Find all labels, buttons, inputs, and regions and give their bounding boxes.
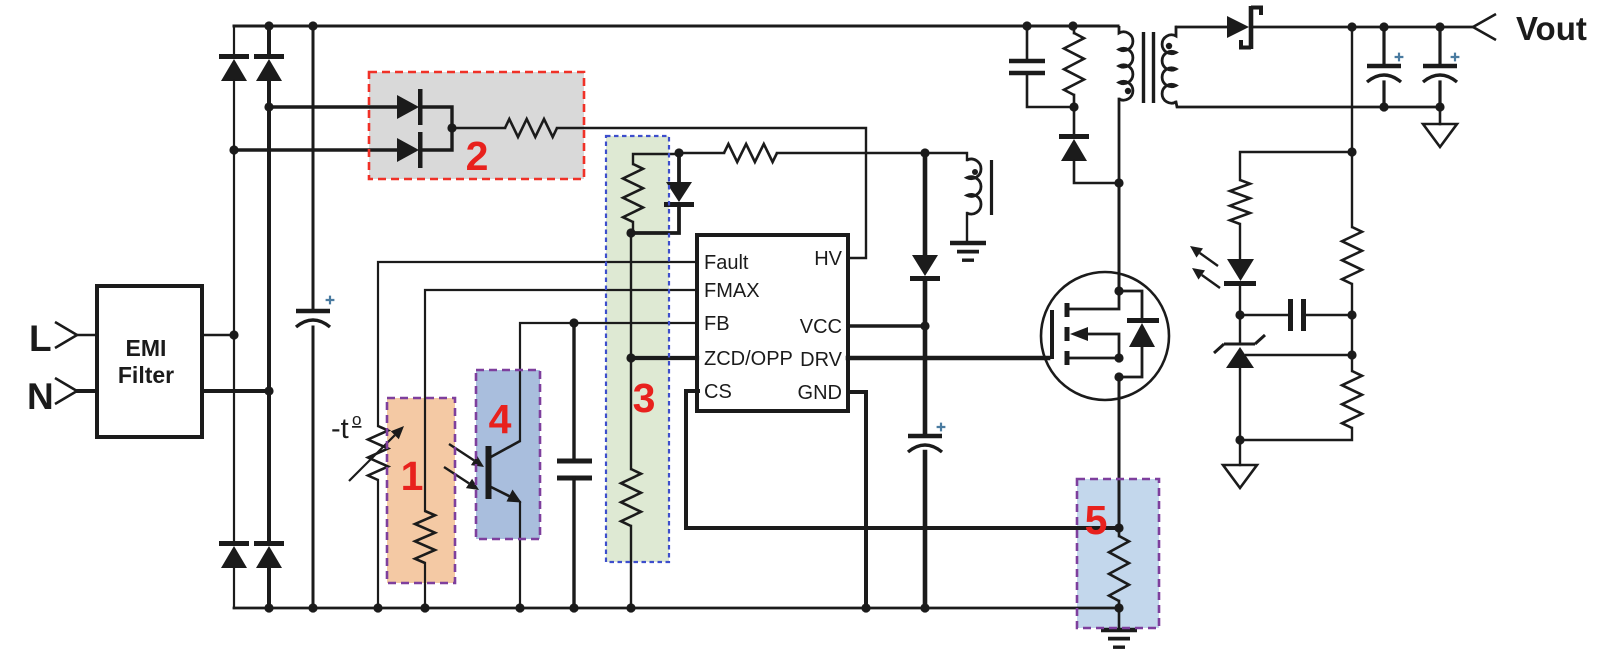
wire sense resistor to ground bbox=[1118, 601, 1121, 630]
diode output schottky bbox=[1227, 6, 1261, 49]
junction CS / sense resistor bbox=[1114, 523, 1123, 532]
junction filter cap / bottom rail bbox=[569, 603, 578, 612]
svg-text:Fault: Fault bbox=[704, 252, 749, 274]
wire right AC column middle bbox=[267, 81, 271, 541]
junction sense resistor / bottom rail bbox=[1114, 603, 1123, 612]
junction divider / comp cap bbox=[1347, 310, 1356, 319]
wire snubber res upper bbox=[1073, 26, 1076, 33]
region 1 border (NTC/FMAX resistor) bbox=[387, 398, 455, 583]
region 4 highlight fill bbox=[476, 370, 540, 539]
resistor divider upper bbox=[1342, 227, 1362, 284]
capacitor VCC electrolytic bbox=[908, 436, 942, 452]
capacitor snubber bbox=[1009, 61, 1045, 73]
wire startup resistor to HV pin bbox=[557, 128, 866, 258]
wire snubber to clamp diode bbox=[1073, 107, 1076, 134]
wire TL431 ref to divider bbox=[1246, 354, 1352, 356]
junction ZCD divider / bottom rail bbox=[626, 603, 635, 612]
wire right AC column upper bbox=[267, 26, 271, 54]
primary polarity dot bbox=[1125, 88, 1131, 94]
wire comp cap right bbox=[1306, 314, 1352, 316]
junction snubber RC bbox=[1069, 102, 1078, 111]
junction snubber cap / top rail bbox=[1022, 21, 1031, 30]
diode startup upper bbox=[397, 89, 423, 125]
op-amp / controller IC U1 box bbox=[697, 235, 848, 411]
junction right column / top rail bbox=[264, 21, 273, 30]
resistor aux sense bbox=[724, 144, 777, 162]
region 5 border (current sense) bbox=[1077, 479, 1159, 628]
wire left AC column middle bbox=[233, 81, 235, 541]
wire VCC cap to bottom rail bbox=[923, 452, 928, 608]
wire VCC pin bbox=[848, 324, 925, 328]
junction NTC / bottom rail bbox=[373, 603, 382, 612]
wire comp cap left bbox=[1240, 314, 1288, 316]
junction right column / bottom rail bbox=[264, 603, 273, 612]
wire primary bottom to drain node bbox=[1118, 99, 1121, 183]
wire aux winding to ground bbox=[966, 213, 968, 242]
plus polarity mark bbox=[326, 296, 335, 305]
wire top DC bus rail bbox=[234, 25, 1118, 28]
junction bulk cap / bottom rail bbox=[308, 603, 317, 612]
wire resistor lower lead bbox=[632, 222, 634, 230]
svg-text:Vout: Vout bbox=[1516, 10, 1587, 47]
resistor opto LED series bbox=[1230, 180, 1250, 224]
svg-text:-t: -t bbox=[331, 413, 349, 445]
junction MOSFET source / body diode bbox=[1114, 372, 1123, 381]
svg-text:VCC: VCC bbox=[800, 316, 842, 338]
wire MOSFET source to sense resistor bbox=[1118, 377, 1121, 528]
wire FB filter cap upper bbox=[572, 323, 575, 457]
aux winding polarity dot bbox=[972, 169, 978, 175]
plus polarity mark bbox=[1451, 53, 1460, 62]
diode startup lower bbox=[397, 132, 423, 168]
capacitor output electrolytic C1 bbox=[1367, 66, 1401, 82]
wire snubber cap lower bbox=[1027, 73, 1074, 107]
wire output cap1 lower bbox=[1382, 82, 1385, 107]
wire NTC to bottom rail bbox=[377, 480, 379, 608]
ground primary return bbox=[1101, 630, 1137, 647]
wire startup diode OR junction bbox=[423, 107, 452, 150]
svg-text:4: 4 bbox=[489, 396, 512, 442]
junction L / left AC column bbox=[229, 330, 238, 339]
svg-text:DRV: DRV bbox=[800, 349, 843, 371]
wire divider mid upper bbox=[1351, 284, 1353, 315]
wire divider mid lower bbox=[1351, 355, 1353, 371]
wire bottom rail bbox=[234, 607, 1119, 610]
wire clamp diode to drain node bbox=[1074, 161, 1119, 183]
wire FB filter cap lower bbox=[572, 478, 575, 608]
arrow NTC slash bbox=[349, 426, 404, 481]
junction ZCD pin tap bbox=[626, 353, 635, 362]
junction VCC pin node bbox=[920, 321, 929, 330]
wire left AC column upper bbox=[233, 26, 235, 54]
wire output diode to Vout bbox=[1253, 26, 1473, 29]
junction VCC cap / bottom rail bbox=[920, 603, 929, 612]
junction FB / filter cap bbox=[569, 318, 578, 327]
wire aux resistor to aux node bbox=[777, 152, 925, 154]
arrow opto light 1 bbox=[449, 444, 484, 467]
wire VCC diode to VCC cap bbox=[923, 281, 928, 434]
thermistor NTC body bbox=[368, 426, 388, 480]
wire divider mid bbox=[1351, 315, 1353, 355]
wire GND pin to bottom rail bbox=[848, 392, 866, 608]
junction N / right AC column bbox=[264, 386, 273, 395]
wire to TL431 bbox=[1239, 315, 1241, 344]
region 5 highlight fill bbox=[1077, 479, 1159, 628]
wire snubber res lower bbox=[1073, 95, 1076, 107]
junction drain node bbox=[1114, 178, 1123, 187]
svg-text:o: o bbox=[352, 410, 361, 429]
wire ZCD divider to bottom rail bbox=[630, 526, 632, 608]
wire sense resistor upper lead bbox=[1118, 528, 1121, 536]
junction aux node bbox=[920, 148, 929, 157]
wire FB pin to optocoupler collector bbox=[520, 323, 697, 441]
resistor R-sense (region 5) bbox=[1109, 536, 1129, 601]
wire FMAX pin to R1 bbox=[425, 290, 697, 511]
svg-text:GND: GND bbox=[798, 382, 842, 404]
diode VCC rectifier bbox=[910, 255, 940, 281]
wire DRV pin to MOSFET gate bbox=[848, 356, 1048, 361]
junction startup diodes to resistor bbox=[447, 123, 456, 132]
arrow LED light 1 bbox=[1190, 246, 1218, 266]
junction Vout / cap2 bbox=[1435, 22, 1444, 31]
diode D2 bridge top-right (cathode up) bbox=[254, 54, 284, 81]
ground aux winding bbox=[950, 243, 986, 260]
svg-text:N: N bbox=[27, 376, 54, 417]
plus polarity mark bbox=[937, 423, 946, 432]
junction Vout / cap1 bbox=[1379, 22, 1388, 31]
junction ZCD top node bbox=[674, 148, 683, 157]
wire L input to EMI filter bbox=[77, 334, 97, 336]
junction TL431 anode bbox=[1235, 435, 1244, 444]
diode D1 bridge top-left (cathode up) bbox=[219, 54, 249, 81]
diode D4 bridge bottom-right (cathode up) bbox=[254, 541, 284, 568]
resistor ZCD lower (region 3) bbox=[621, 469, 641, 526]
wire TL431 anode down bbox=[1239, 368, 1241, 440]
wire aux node to VCC diode bbox=[923, 153, 928, 255]
svg-text:2: 2 bbox=[466, 133, 489, 179]
wire output cap2 lower bbox=[1438, 82, 1441, 107]
svg-text:FMAX: FMAX bbox=[704, 280, 760, 302]
wire anode to ground bbox=[1239, 440, 1241, 465]
wire ZCD diode upper bbox=[677, 154, 681, 181]
capacitor FB filter bbox=[557, 461, 592, 478]
wire cap2 to output ground bbox=[1439, 107, 1442, 124]
wire LED series to LED bbox=[1239, 224, 1241, 259]
junction return / cap1 bbox=[1379, 102, 1388, 111]
region 3 border (ZCD divider) bbox=[606, 136, 669, 562]
region 2 border (HV startup) bbox=[369, 72, 584, 179]
transformer secondary winding bbox=[1162, 27, 1177, 103]
wire Vout down to feedback bbox=[1351, 27, 1353, 152]
optocoupler phototransistor Q (region 4) bbox=[486, 441, 522, 503]
diode D3 bridge bottom-left (cathode up) bbox=[219, 541, 249, 568]
capacitor output electrolytic C2 bbox=[1423, 66, 1457, 82]
junction ZCD divider mid bbox=[626, 228, 635, 237]
wire ZCD/OPP pin bbox=[631, 356, 697, 360]
wire AC to startup diode lower bbox=[234, 148, 397, 151]
junction Vout / feedback column bbox=[1347, 22, 1356, 31]
output terminal Vout bbox=[1473, 14, 1496, 40]
junction bulk cap / top rail bbox=[308, 21, 317, 30]
wire LED to TL431 cathode bbox=[1239, 286, 1241, 315]
region 3 highlight fill bbox=[606, 136, 669, 562]
junction snubber res / top rail bbox=[1068, 21, 1077, 30]
wire opto emitter to bottom rail bbox=[519, 502, 521, 608]
wire N input to EMI filter bbox=[77, 389, 97, 393]
secondary polarity dot bbox=[1166, 43, 1172, 49]
region 1 highlight fill bbox=[387, 398, 455, 583]
junction feedback tap bbox=[1347, 147, 1356, 156]
wire CS pin to sense resistor bbox=[686, 391, 1119, 528]
wire Fault pin to NTC bbox=[378, 262, 697, 426]
resistor startup HV bbox=[505, 119, 557, 137]
resistor R1 FMAX set bbox=[415, 511, 435, 563]
wire drain node to MOSFET bbox=[1118, 183, 1121, 291]
wire to startup resistor bbox=[452, 127, 505, 129]
transformer core bbox=[1144, 32, 1154, 103]
resistor ZCD upper (region 3) bbox=[623, 164, 643, 222]
junction return / cap2 bbox=[1435, 102, 1444, 111]
junction MOSFET drain bbox=[1114, 286, 1123, 295]
svg-text:HV: HV bbox=[814, 248, 842, 270]
wire right AC column lower bbox=[267, 568, 271, 608]
wire divider bottom to anode bbox=[1240, 428, 1352, 440]
junction R1 / bottom rail bbox=[420, 603, 429, 612]
ground output bbox=[1423, 124, 1457, 147]
LED optocoupler emitter diode bbox=[1224, 259, 1256, 284]
svg-text:ZCD/OPP: ZCD/OPP bbox=[704, 348, 793, 370]
wire R1 to bottom rail bbox=[424, 563, 426, 608]
resistor snubber bbox=[1064, 33, 1084, 95]
wire feedback to opto LED branch bbox=[1240, 152, 1352, 180]
wire output cap1 upper bbox=[1382, 27, 1385, 64]
junction MOSFET source internal bbox=[1114, 353, 1123, 362]
capacitor bulk electrolytic bbox=[296, 311, 330, 327]
junction startup tap lower bbox=[229, 145, 238, 154]
arrow LED light 2 bbox=[1192, 268, 1220, 288]
aux core bar bbox=[990, 160, 993, 215]
junction LED cathode / comp cap bbox=[1235, 310, 1244, 319]
svg-text:1: 1 bbox=[401, 453, 424, 499]
wire left AC column lower bbox=[233, 568, 235, 608]
transistor Q1 power MOSFET bbox=[1041, 272, 1169, 400]
svg-text:L: L bbox=[29, 318, 52, 359]
wire bulk cap upper bbox=[312, 26, 315, 309]
svg-text:3: 3 bbox=[633, 375, 656, 421]
ground TL431 bbox=[1223, 465, 1257, 488]
wire secondary top to output diode bbox=[1177, 26, 1227, 29]
transformer primary winding bbox=[1119, 26, 1133, 100]
wire aux node to aux winding bbox=[925, 153, 967, 160]
capacitor compensation bbox=[1291, 299, 1304, 331]
diode ZCD clamp bbox=[664, 182, 694, 207]
junction startup tap upper bbox=[264, 102, 273, 111]
svg-text:CS: CS bbox=[704, 381, 732, 403]
svg-text:FB: FB bbox=[704, 313, 730, 335]
wire AC to startup diode upper bbox=[269, 105, 397, 108]
inductor aux winding bbox=[967, 159, 981, 214]
wire ZCD diode to divider bbox=[631, 205, 679, 233]
wire EMI filter L output to bridge bbox=[202, 334, 234, 336]
EMI Filter block bbox=[97, 286, 202, 437]
TL431 shunt regulator (programmable zener) bbox=[1214, 335, 1265, 368]
arrow opto light 2 bbox=[444, 467, 479, 490]
wire ZCD node to aux resistor bbox=[679, 152, 724, 154]
junction GND / bottom rail bbox=[861, 603, 870, 612]
svg-text:5: 5 bbox=[1085, 497, 1108, 543]
region 2 highlight fill bbox=[369, 72, 584, 179]
svg-text:Filter: Filter bbox=[118, 362, 174, 388]
wire snubber cap upper bbox=[1026, 26, 1029, 58]
diode snubber clamp (cathode up) bbox=[1059, 134, 1089, 161]
junction divider / TL431 ref bbox=[1347, 350, 1356, 359]
plus polarity mark bbox=[1395, 53, 1404, 62]
region 4 border (optocoupler) bbox=[476, 370, 540, 539]
svg-text:EMI: EMI bbox=[126, 335, 167, 361]
wire ZCD divider top bbox=[633, 154, 679, 164]
wire output cap2 upper bbox=[1438, 27, 1441, 64]
wire EMI filter N output to bridge bbox=[202, 389, 269, 393]
wire bulk cap lower bbox=[312, 327, 315, 608]
wire divider upper lead bbox=[1351, 152, 1353, 227]
resistor divider lower bbox=[1342, 371, 1362, 428]
wire ZCD divider vertical bbox=[630, 233, 632, 469]
junction opto emitter / bottom rail bbox=[515, 603, 524, 612]
wire secondary bottom return bbox=[1176, 102, 1440, 107]
